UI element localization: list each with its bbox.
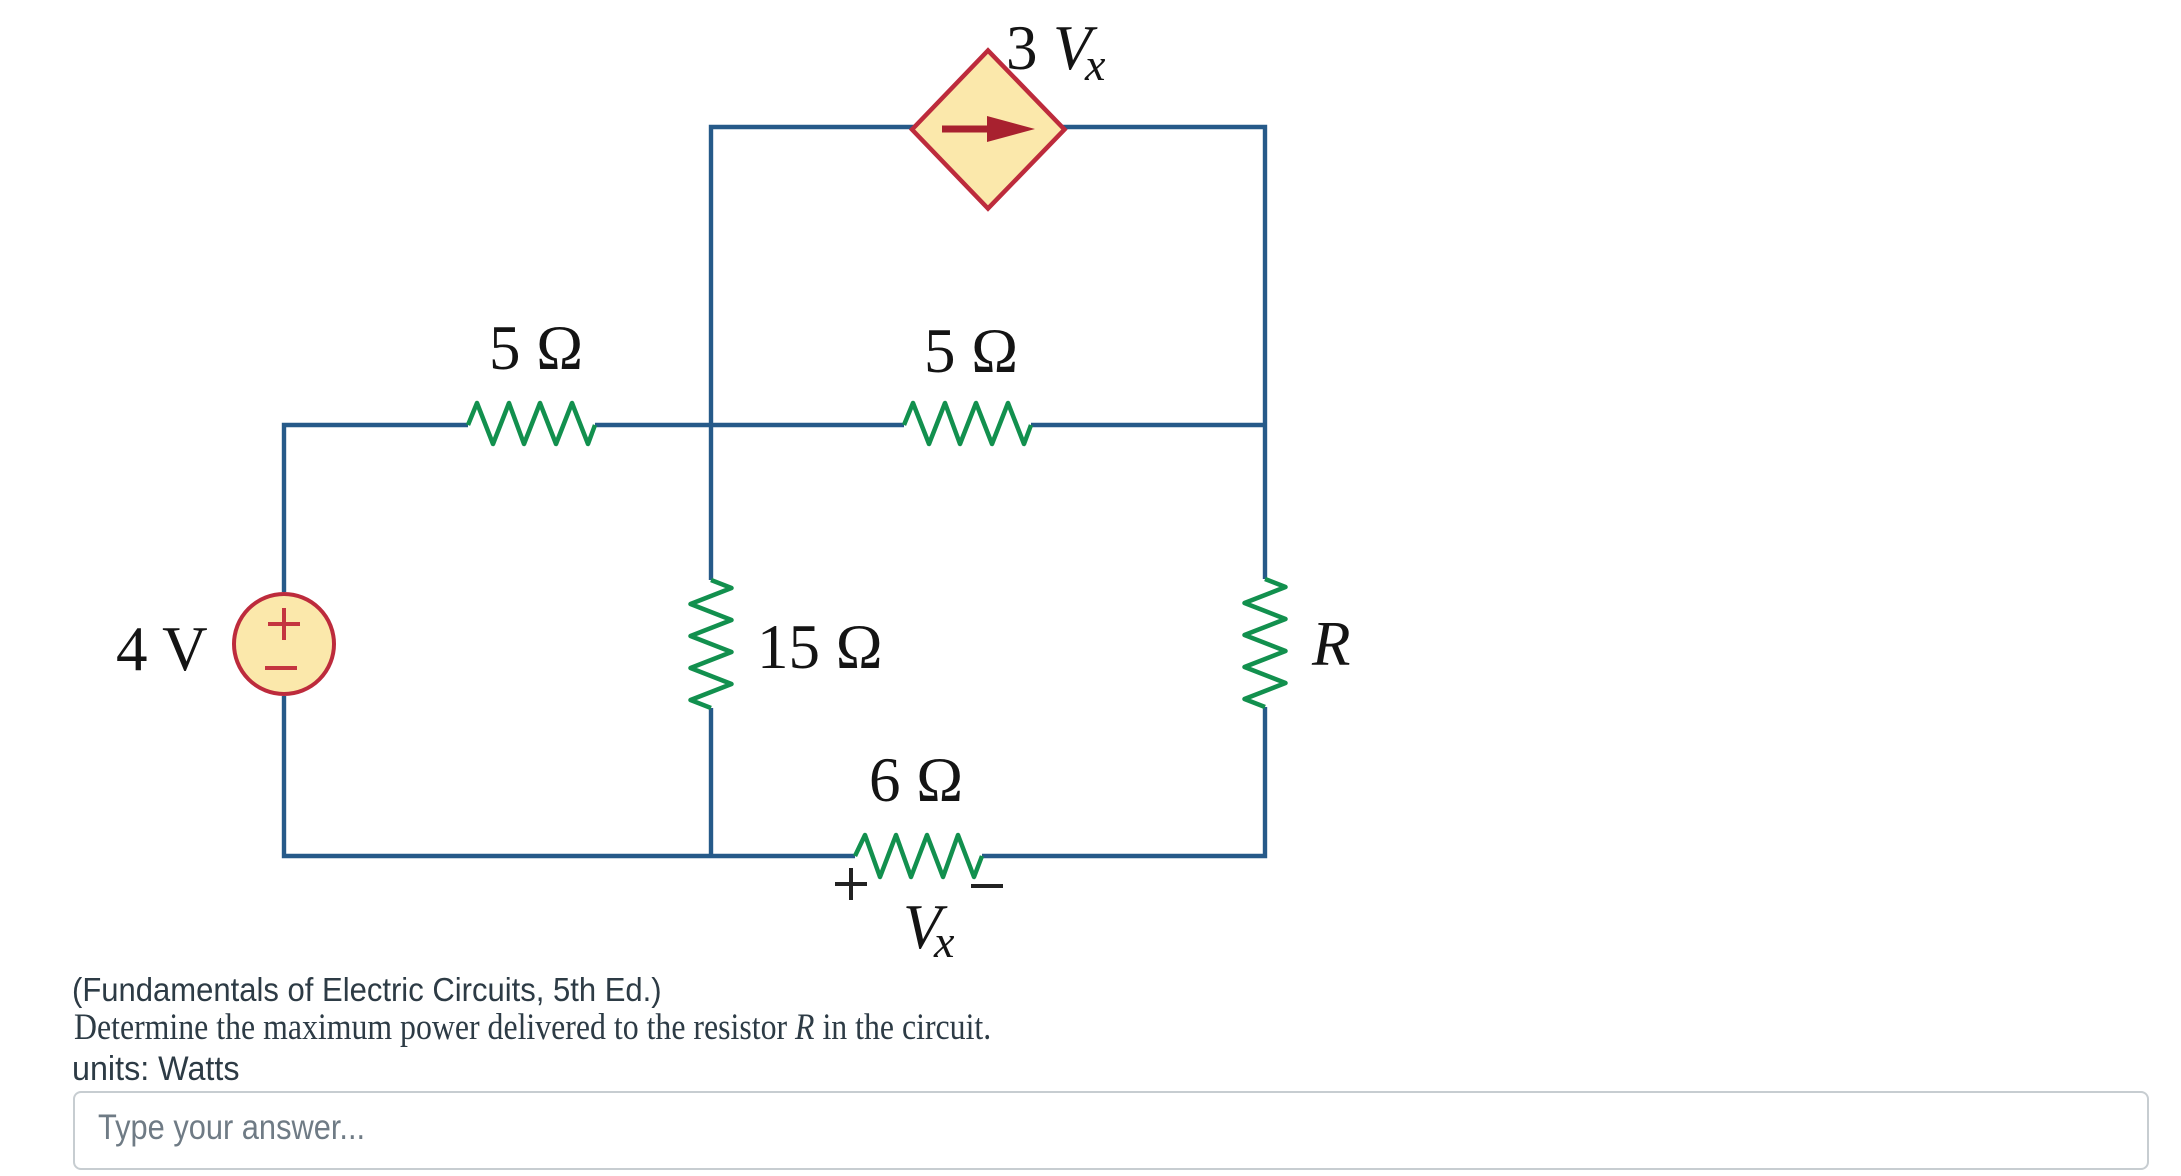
svg-text:15 Ω: 15 Ω [757, 612, 883, 682]
svg-text:5 Ω: 5 Ω [924, 316, 1018, 386]
svg-text:x: x [1084, 39, 1106, 90]
svg-text:5 Ω: 5 Ω [489, 313, 583, 383]
svg-text:6 Ω: 6 Ω [869, 745, 963, 815]
svg-text:R: R [1311, 609, 1350, 679]
svg-text:3: 3 [1006, 13, 1038, 83]
svg-text:4 V: 4 V [116, 614, 208, 684]
svg-text:x: x [933, 916, 955, 967]
